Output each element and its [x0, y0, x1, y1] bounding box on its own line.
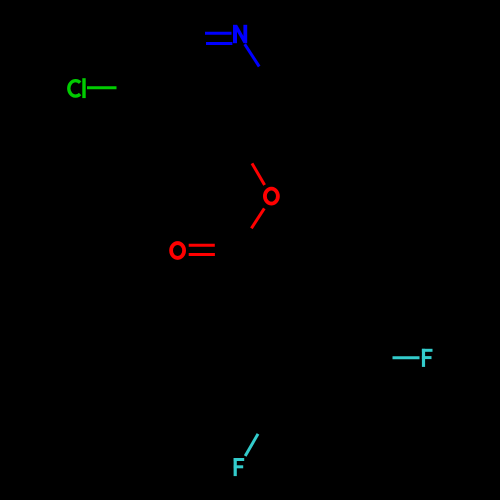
node Cl chlorine label (C glyph arc + l bar) — [69, 81, 80, 96]
node O9 carbonyl oxygen label — [171, 243, 184, 258]
wire O7-C8 ester bond (red half) — [251, 208, 264, 228]
wire C5'-F2 bond (cyan half) — [245, 434, 258, 456]
wire C5-O7 ester bond (red half) — [252, 163, 265, 185]
wire N1=C2 aromatic inner line (blue half) — [206, 42, 232, 45]
wire C3-Cl bond (green half) — [87, 86, 117, 89]
node F2 fluorine label — [234, 458, 245, 476]
node O7 ester oxygen label — [265, 189, 278, 204]
wire C8=O9 carbonyl double bond lower line (red half) — [189, 253, 215, 256]
wire N1-C6 ring bond (blue half) — [245, 44, 260, 66]
node N1 pyridine nitrogen label — [233, 25, 247, 43]
node F1 fluorine label — [422, 349, 433, 367]
wire C3'-F1 bond (cyan half) — [393, 356, 420, 359]
wire N1=C2 main bond line (blue half) — [205, 32, 232, 35]
wire C8=O9 carbonyl double bond upper line (red half) — [189, 244, 215, 247]
